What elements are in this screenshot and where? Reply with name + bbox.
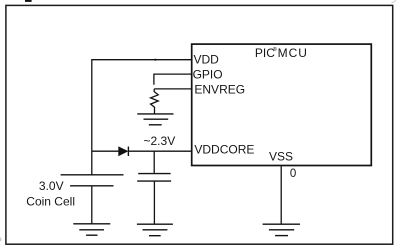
wire VSS pin to ground [280, 166, 282, 224]
battery BT1 negative plate [70, 185, 113, 187]
svg-text:~2.3V: ~2.3V [144, 134, 176, 148]
battery BT1 positive plate [61, 174, 124, 176]
svg-text:Coin Cell: Coin Cell [26, 195, 75, 209]
resistor R1 [151, 89, 159, 114]
svg-text:VDD: VDD [194, 52, 220, 66]
ground below VSS [263, 224, 300, 235]
diode D1 anode triangle [119, 147, 128, 156]
svg-text:GPIO: GPIO [193, 67, 223, 81]
svg-text:VDDCORE: VDDCORE [194, 142, 254, 156]
capacitor C1 top plate [138, 173, 170, 175]
svg-text:3.0V: 3.0V [39, 179, 64, 193]
svg-text:MCU: MCU [278, 46, 308, 60]
MCU U1 box [192, 44, 372, 165]
junction dot on VDD wire [154, 59, 156, 61]
wire capacitor to ground [153, 181, 155, 224]
capacitor C1 bottom plate [137, 180, 171, 182]
ground below battery [73, 224, 110, 235]
wire diode to VDDCORE pin [128, 150, 191, 152]
svg-text:ENVREG: ENVREG [194, 82, 245, 96]
wire ENVREG pin to resistor [154, 88, 192, 90]
ground below capacitor [137, 224, 173, 236]
stray mark (cropped text descender at top edge) [25, 0, 32, 2]
svg-text:VSS: VSS [269, 150, 293, 164]
faint speck top-right corner [392, 0, 397, 3]
wire VDDCORE rail to diode [92, 150, 119, 152]
ground below resistor [137, 114, 173, 125]
wire VDDCORE node down to capacitor [153, 151, 155, 173]
faint speck left edge [0, 238, 1, 242]
svg-text:0: 0 [290, 168, 296, 180]
diode D1 cathode bar [127, 147, 129, 157]
wire VDD pin to left rail [92, 59, 192, 61]
wire GPIO pin stub [154, 74, 192, 85]
wire battery to ground [91, 186, 93, 224]
wire left battery rail [91, 59, 93, 174]
